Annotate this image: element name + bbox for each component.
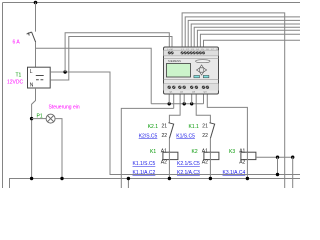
wire: Q2 right stub: [183, 94, 185, 104]
wire: Q2 left to contact K2.1: [169, 94, 180, 123]
wire: to lamp: [32, 118, 46, 120]
wire: input I3: [188, 20, 300, 47]
wire: input I7: [200, 34, 300, 47]
module cursor pad: [197, 65, 207, 75]
contact K2.1: [168, 123, 174, 139]
wire: input I1: [182, 13, 285, 188]
module bottom screw slots: [168, 86, 208, 88]
node: junction on top rail: [34, 1, 38, 5]
svg-text:K3.1/A.C4: K3.1/A.C4: [223, 170, 246, 176]
contact K1.1: [209, 123, 215, 139]
node: dot K3 out left: [276, 156, 279, 159]
svg-text:21: 21: [202, 124, 208, 130]
node: line A dot Q2: [183, 102, 186, 105]
svg-text:6 A: 6 A: [13, 40, 21, 46]
svg-text:L+ M: L+ M: [168, 49, 173, 51]
wire: bus exit stub: [127, 179, 129, 189]
svg-text:A1: A1: [239, 148, 245, 154]
wire: contact K2.1 to coil K1: [168, 138, 170, 152]
svg-text:K1/S.C5: K1/S.C5: [176, 133, 195, 139]
module top screw slots: [168, 52, 204, 54]
coil K1: [163, 152, 178, 159]
svg-text:K2.1/A.C3: K2.1/A.C3: [177, 170, 200, 176]
svg-text:22: 22: [202, 133, 208, 139]
module cyan buttons: [194, 75, 200, 77]
node: dot K3 out right: [291, 156, 294, 159]
wire: transformer L+ secondary to right: [50, 72, 300, 175]
transformer winding dashed: [36, 79, 43, 81]
wire: input I2: [185, 17, 300, 47]
node: L+ junction: [63, 70, 66, 73]
svg-text:K1.1: K1.1: [189, 124, 200, 130]
svg-text:A1: A1: [202, 148, 208, 154]
wire: contact K1.1 to coil K2: [209, 138, 211, 152]
svg-text:K2/S.C5: K2/S.C5: [139, 133, 158, 139]
module label pill: [196, 60, 210, 63]
svg-text:21: 21: [162, 124, 168, 130]
module LCD screen: [167, 64, 191, 78]
wire: top rail to breaker: [35, 3, 37, 32]
svg-text:K2.1/S.C5: K2.1/S.C5: [177, 161, 200, 167]
top rail: [3, 2, 301, 4]
svg-text:T1: T1: [16, 73, 22, 79]
module output labels Q1-Q4: [170, 92, 208, 94]
node: line A dot Q3: [190, 102, 193, 105]
wire: Q4 left stub: [203, 94, 205, 104]
node: line A dot Q1: [168, 102, 171, 105]
wire: Q3 right to contact K1.1: [196, 94, 210, 123]
transformer T1 box: [28, 67, 51, 88]
left rail: [2, 3, 4, 189]
svg-text:12VDC: 12VDC: [7, 80, 24, 86]
wire: input I8: [204, 40, 301, 47]
wire: Q3 left stub: [191, 94, 193, 104]
wire: Q1 left stub: [168, 94, 170, 104]
node: bus dot exit: [127, 177, 130, 180]
logic module U1 SIEMENS LOGO: [164, 47, 219, 94]
svg-text:22: 22: [162, 133, 168, 139]
node: dot on lower right line: [276, 173, 279, 176]
module bottom screws: [168, 86, 210, 89]
wire: Q1 right stub to line B: [173, 94, 175, 108]
svg-text:A2: A2: [161, 159, 167, 165]
wire: right column exits page: [292, 157, 294, 188]
wire: lamp to bus: [55, 119, 62, 179]
wire: line B exits page: [121, 108, 173, 188]
svg-text:SIEMENS: SIEMENS: [168, 59, 181, 63]
svg-text:K1.1/S.C5: K1.1/S.C5: [133, 161, 156, 167]
wire: input I6: [197, 30, 300, 47]
svg-text:K1: K1: [150, 149, 156, 155]
wire: output common line A: [151, 103, 203, 105]
wire: input I4: [191, 24, 300, 47]
svg-text:K1.1/A.C2: K1.1/A.C2: [133, 170, 156, 176]
wire: input I5: [194, 27, 300, 47]
coil K3: [241, 152, 256, 159]
wire: through coil K1 to bus: [168, 152, 170, 178]
node: bus dot K3: [246, 177, 249, 180]
wire: L+ up to module: [65, 33, 169, 72]
wire: right link down: [277, 157, 279, 174]
node: lamp branch dot: [30, 117, 33, 120]
wire: K3 output to right column: [256, 156, 293, 158]
svg-text:K3: K3: [229, 149, 235, 155]
svg-text:K2.1: K2.1: [148, 124, 159, 130]
node: bus dot left: [30, 177, 33, 180]
wire: Q4 right to coil K3: [207, 94, 247, 152]
transformer winding solid: [36, 75, 44, 77]
module top screws: [168, 51, 205, 54]
node: bus dot lamp return: [60, 177, 63, 180]
svg-text:Steuerung ein: Steuerung ein: [49, 105, 80, 111]
node: bus dot K2: [209, 177, 212, 180]
coil K2: [204, 152, 219, 159]
svg-text:I1 I2 I3 I4 I5 I6 I7 I8: I1 I2 I3 I4 I5 I6 I7 I8: [181, 49, 219, 51]
svg-text:A2: A2: [239, 159, 245, 165]
svg-text:A2: A2: [202, 159, 208, 165]
wire: M pin up to module: [50, 37, 172, 81]
lamp P1: [46, 114, 55, 123]
wire: breaker branch to output common line: [36, 48, 152, 104]
svg-text:L: L: [30, 69, 33, 75]
svg-text:K2: K2: [192, 149, 198, 155]
svg-text:P1: P1: [37, 114, 43, 120]
svg-text:A1: A1: [161, 148, 167, 154]
bottom bus: [10, 179, 301, 189]
svg-text:N: N: [30, 82, 34, 88]
wire: through coil K3 to bus: [246, 152, 248, 178]
wire: breaker to transformer: [35, 42, 37, 67]
wire: transformer N down with jog: [32, 88, 36, 179]
wire: through coil K2 to bus: [209, 152, 211, 178]
breaker 6A: [27, 32, 36, 42]
node: bus dot K1: [168, 177, 171, 180]
